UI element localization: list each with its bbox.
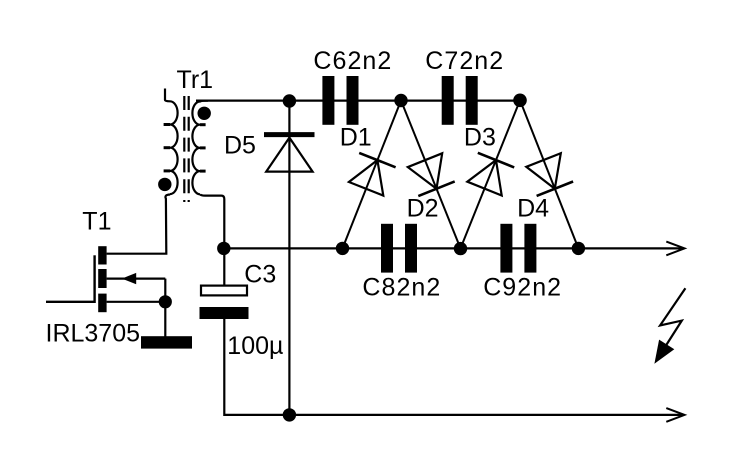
- svg-text:D1: D1: [340, 124, 372, 152]
- node primary bottom (polarity dot): [158, 178, 171, 191]
- node C3 top / mid rail: [217, 242, 230, 255]
- node D4 bottom / mid rail: [572, 242, 585, 255]
- node A (D5 / top rail): [283, 94, 296, 107]
- gate bar: [93, 255, 95, 303]
- lightning bolt (HV output symbol): [654, 288, 685, 364]
- primary top lead: [165, 89, 170, 102]
- transformer Tr1: [164, 89, 178, 195]
- svg-text:D3: D3: [464, 124, 496, 152]
- capacitor C6: [322, 76, 358, 125]
- capacitor C9: [500, 224, 536, 273]
- node D5 bottom / bottom rail: [283, 408, 296, 421]
- node C (C7/D3/D4): [513, 94, 527, 108]
- wire top rail (secondary top to node C): [196, 99, 520, 101]
- wire bottom rail: [224, 319, 683, 415]
- svg-text:C3: C3: [244, 261, 276, 289]
- node secondary top (polarity dot): [198, 107, 211, 120]
- MOSFET T1: [46, 246, 165, 337]
- source to ground: [164, 302, 166, 337]
- ground: [141, 336, 192, 348]
- node D1 bottom / mid rail: [336, 242, 349, 255]
- capacitor C3 (electrolytic): [200, 286, 249, 319]
- svg-text:C72n2: C72n2: [425, 47, 504, 75]
- node D2-D3 bottom / mid rail: [454, 242, 467, 255]
- diode D5: [264, 135, 315, 172]
- node B (C6/C7/D1/D2): [394, 94, 407, 107]
- capacitor C7: [442, 76, 478, 125]
- primary winding (4 loops): [170, 101, 178, 194]
- transformer core (dashed lines): [183, 96, 185, 202]
- wire diagonal D3: [461, 100, 521, 248]
- diode D2: [408, 153, 455, 196]
- secondary winding curl nubs: [200, 123, 206, 126]
- channel bars: [98, 246, 106, 264]
- svg-text:C92n2: C92n2: [483, 273, 562, 301]
- svg-text:100µ: 100µ: [227, 332, 283, 360]
- arrow bottom rail output: [666, 408, 684, 422]
- svg-text:D4: D4: [517, 195, 549, 223]
- node MOSFET source: [159, 295, 172, 308]
- diode D3: [467, 153, 514, 196]
- wire primary bottom lead to drain: [107, 195, 170, 254]
- svg-text:T1: T1: [82, 208, 111, 236]
- diode D1: [349, 153, 396, 196]
- wire secondary bottom lead: [200, 194, 224, 248]
- svg-text:D2: D2: [407, 195, 439, 223]
- body lead with arrow: [107, 278, 166, 280]
- diode D4: [526, 153, 573, 196]
- wire middle rail: [223, 247, 683, 249]
- source lead: [107, 301, 166, 303]
- capacitor C8: [381, 224, 417, 273]
- gate lead: [46, 301, 95, 303]
- svg-text:D5: D5: [224, 131, 256, 159]
- svg-text:Tr1: Tr1: [177, 66, 214, 94]
- wire D5 vertical: [288, 101, 290, 415]
- secondary winding (4 loops): [192, 101, 208, 195]
- primary winding curl nubs: [164, 123, 170, 126]
- svg-text:C82n2: C82n2: [362, 273, 441, 301]
- svg-text:C62n2: C62n2: [313, 47, 392, 75]
- arrow middle rail output: [666, 242, 684, 256]
- wire diagonal D2: [401, 101, 461, 249]
- svg-text:IRL3705: IRL3705: [46, 319, 141, 347]
- wire diagonal D4: [520, 100, 578, 248]
- wire diagonal D1: [343, 101, 402, 249]
- wire C3 top lead: [223, 248, 225, 285]
